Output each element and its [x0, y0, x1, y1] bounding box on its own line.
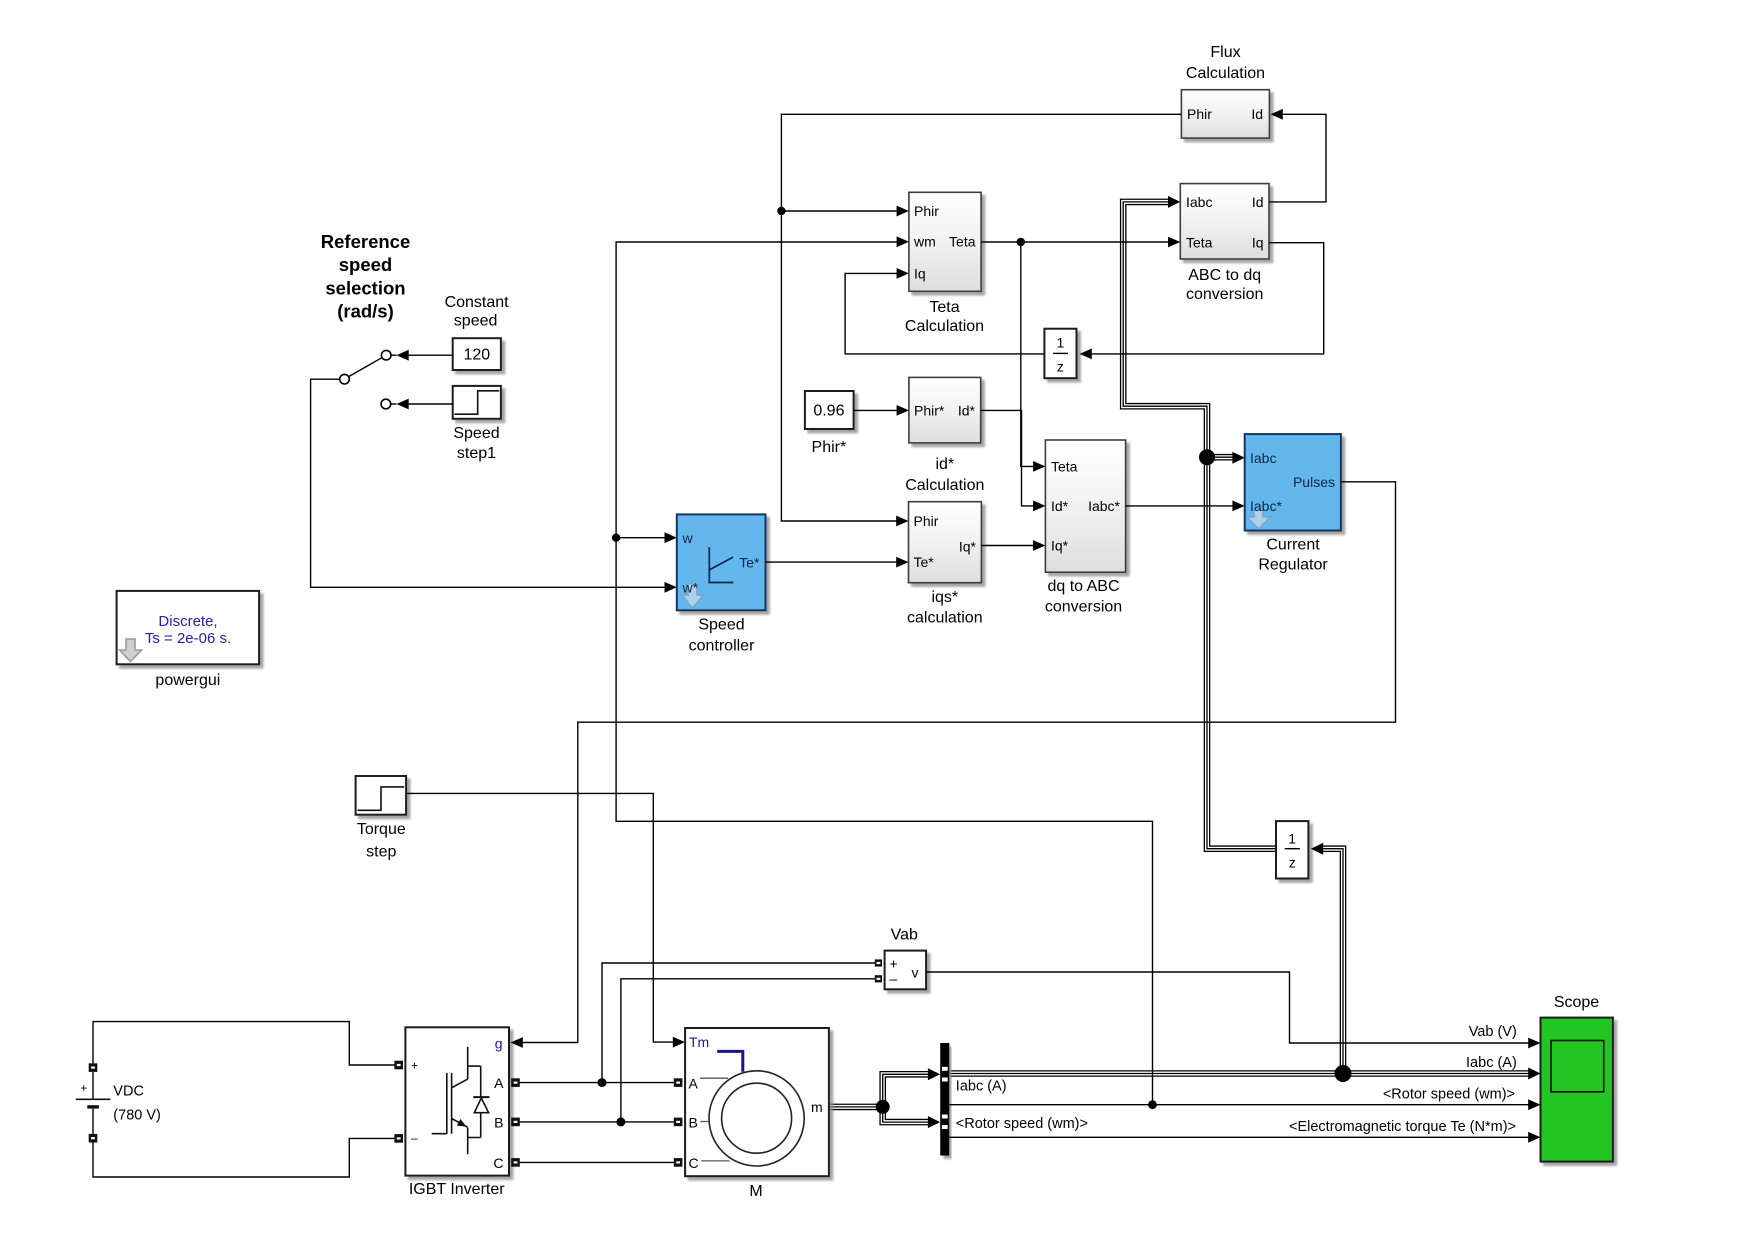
- svg-text:Id: Id: [1251, 106, 1263, 122]
- port battery -: [89, 1134, 98, 1143]
- scope block: [1541, 1018, 1613, 1162]
- svg-text:Phir: Phir: [914, 203, 939, 219]
- mask arrow Current Regulator: [1247, 510, 1270, 529]
- unit delay 1/z (Iq): [1044, 329, 1076, 379]
- wire unit delay out to Teta Calculation Iq: [845, 273, 1044, 354]
- svg-text:controller: controller: [689, 638, 755, 655]
- wire battery stub bottom: [92, 1109, 94, 1134]
- svg-text:dq to ABC: dq to ABC: [1047, 578, 1119, 595]
- svg-text:Speed: Speed: [453, 425, 499, 442]
- wire bus Iabc to scope: [949, 1073, 1530, 1075]
- wire switch stub upper: [391, 354, 396, 356]
- wire VDC- to inverter: [93, 1138, 395, 1177]
- subsystem dq to ABC conversion: [1045, 440, 1125, 572]
- wire Iabc* to Current Regulator: [1126, 505, 1233, 507]
- wire Iq to unit delay: [1091, 243, 1324, 354]
- arrow into motor Tm: [673, 1037, 685, 1048]
- svg-text:Teta: Teta: [1186, 235, 1213, 251]
- svg-text:Iabc (A): Iabc (A): [956, 1079, 1007, 1095]
- svg-text:id*: id*: [935, 456, 954, 473]
- arrow into Teta Calculation wm: [897, 236, 909, 247]
- svg-text:Calculation: Calculation: [905, 477, 984, 494]
- svg-text:Regulator: Regulator: [1258, 557, 1328, 574]
- arrow into Current Regulator Iabc: [1232, 452, 1244, 464]
- svg-text:1: 1: [1288, 831, 1296, 847]
- svg-text:wm: wm: [913, 234, 936, 250]
- arrow into ABC-to-dq Teta: [1168, 237, 1180, 248]
- svg-text:Current: Current: [1266, 537, 1320, 554]
- svg-text:Pulses: Pulses: [1293, 474, 1335, 490]
- arrow into scope torque: [1528, 1132, 1540, 1143]
- wire Iq* to dq-to-ABC: [981, 545, 1034, 547]
- arrow into dq-to-ABC Teta: [1033, 461, 1045, 472]
- svg-text:Iq: Iq: [1252, 235, 1264, 251]
- svg-text:iqs*: iqs*: [931, 589, 958, 606]
- wire bus to busselector in1: [883, 1074, 930, 1107]
- svg-text:M: M: [749, 1183, 762, 1200]
- wire bus to busselector in2: [883, 1107, 930, 1122]
- wire bus Iabc to 1/z: [1322, 849, 1343, 1074]
- node Iabc bus junction: [1335, 1065, 1352, 1082]
- step Speed step1: [453, 386, 501, 419]
- svg-text:C: C: [493, 1155, 503, 1171]
- motor Tm blue elbow: [717, 1051, 743, 1071]
- wire bus m-out: [829, 1105, 883, 1109]
- subsystem id* Calculation: [909, 377, 981, 443]
- svg-text:Phir*: Phir*: [914, 403, 945, 419]
- mask arrow powergui: [120, 639, 142, 662]
- manual switch circles: [381, 350, 391, 360]
- svg-text:Te*: Te*: [739, 555, 760, 571]
- wire 120 to switch: [408, 354, 452, 356]
- step icon Torque step: [358, 787, 405, 810]
- svg-text:step: step: [366, 844, 396, 861]
- node Iabc regulator junction: [1199, 449, 1215, 465]
- svg-text:Vab: Vab: [891, 927, 918, 944]
- svg-text:Ts = 2e-06 s.: Ts = 2e-06 s.: [145, 630, 231, 647]
- asynchronous machine M: [685, 1028, 829, 1176]
- svg-text:Iq*: Iq*: [959, 539, 977, 555]
- svg-text:v: v: [912, 965, 919, 981]
- svg-text:Phir*: Phir*: [812, 439, 847, 456]
- IGBT transistor icon: [432, 1073, 452, 1134]
- svg-text:0.96: 0.96: [813, 403, 844, 420]
- svg-text:IGBT Inverter: IGBT Inverter: [409, 1181, 505, 1198]
- mask arrow Speed controller: [682, 584, 704, 608]
- IGBT diode: [473, 1096, 489, 1098]
- wire bus to busselector in1: [883, 1074, 930, 1107]
- svg-text:Reference: Reference: [321, 231, 410, 252]
- svg-text:powergui: powergui: [155, 672, 220, 689]
- port IGBT C: [511, 1158, 520, 1167]
- wire bus 1/z out feedback: [1123, 202, 1276, 849]
- arrow into iqs* Te*: [896, 557, 908, 568]
- svg-text:Speed: Speed: [698, 617, 744, 634]
- svg-text:Calculation: Calculation: [1186, 65, 1265, 82]
- wire bus Iabc to 1/z: [1322, 849, 1343, 1074]
- wire bus Iabc to scope: [949, 1070, 1530, 1077]
- arrow into scope Iabc: [1528, 1068, 1540, 1080]
- subsystem Teta Calculation: [909, 192, 981, 291]
- svg-text:Constant: Constant: [445, 294, 510, 311]
- svg-text:(780 V): (780 V): [113, 1108, 161, 1124]
- svg-text:speed: speed: [339, 254, 392, 275]
- step Torque step: [356, 776, 407, 815]
- unit delay 1/z (Iabc): [1276, 821, 1308, 878]
- svg-text:speed: speed: [454, 313, 498, 330]
- wire bus Iabc to scope: [949, 1072, 1530, 1076]
- svg-text:1: 1: [1057, 335, 1065, 351]
- svg-text:<Rotor speed (wm)>: <Rotor speed (wm)>: [1383, 1087, 1515, 1103]
- arrow into scope Vab: [1528, 1038, 1540, 1049]
- step icon Speed step1: [454, 391, 499, 414]
- svg-text:Iabc*: Iabc*: [1088, 498, 1120, 514]
- wire bus branch to current regulator: [1207, 455, 1234, 459]
- wire bus to busselector in1: [883, 1074, 930, 1107]
- arrow into Speed controller w: [665, 532, 677, 543]
- wire bus branch to current regulator: [1207, 456, 1234, 458]
- port battery +: [89, 1063, 98, 1072]
- wire Te* to iqs* calculation: [766, 561, 898, 563]
- svg-text:Teta: Teta: [949, 234, 976, 250]
- svg-text:z: z: [1057, 359, 1064, 375]
- port Vab +: [875, 959, 882, 966]
- svg-text:Torque: Torque: [357, 821, 406, 838]
- subsystem iqs* calculation: [909, 502, 982, 583]
- wire bus 1/z out feedback: [1123, 202, 1276, 849]
- bus selector: [940, 1043, 949, 1156]
- svg-text:A: A: [689, 1076, 699, 1092]
- motor stator circles: [709, 1071, 804, 1166]
- wire bus branch to current regulator: [1207, 454, 1234, 461]
- port motor B: [674, 1118, 683, 1127]
- arrow into ABC-to-dq Iabc: [1168, 196, 1180, 208]
- svg-text:Scope: Scope: [1554, 994, 1599, 1011]
- subsystem Flux Calculation: [1181, 90, 1269, 138]
- svg-text:Discrete,: Discrete,: [158, 613, 217, 630]
- svg-text:Tm: Tm: [689, 1034, 709, 1050]
- node machine bus junction: [876, 1100, 890, 1114]
- arrow into bus selector in1: [928, 1068, 940, 1080]
- arrow into Teta Calculation Iq: [897, 268, 909, 279]
- wire switch stub lower: [391, 403, 397, 405]
- svg-text:Vab (V): Vab (V): [1469, 1024, 1517, 1040]
- wire Phir branch to Teta Calculation: [781, 210, 897, 212]
- bus selector port notches: [942, 1067, 948, 1071]
- svg-text:Iq*: Iq*: [1051, 538, 1069, 554]
- svg-text:ABC to dq: ABC to dq: [1188, 267, 1261, 284]
- arrow into Current Regulator Iabc*: [1232, 501, 1244, 512]
- svg-text:Flux: Flux: [1210, 44, 1240, 61]
- arrow into Teta Calculation Phir: [897, 206, 909, 217]
- wire bus Iabc to 1/z: [1322, 849, 1343, 1074]
- arrow into unit delay 2: [1311, 843, 1323, 855]
- wire Pulses to IGBT g: [522, 482, 1396, 1043]
- arrow into dq-to-ABC Iq*: [1033, 540, 1045, 551]
- port motor A: [674, 1078, 683, 1087]
- svg-text:Teta: Teta: [1051, 459, 1078, 475]
- svg-text:w: w: [682, 530, 694, 546]
- wire phase A to Vab+: [602, 963, 875, 1083]
- constant Phir* 0.96: [805, 391, 854, 429]
- svg-text:+: +: [411, 1059, 418, 1073]
- node phase A junction: [598, 1078, 607, 1087]
- port Vab -: [875, 975, 882, 982]
- arrow into Speed controller w*: [665, 582, 677, 593]
- wire VDC+ to inverter: [93, 1022, 395, 1065]
- wire torque Te to scope: [949, 1136, 1530, 1138]
- node phase B junction: [616, 1117, 625, 1126]
- svg-text:B: B: [494, 1115, 503, 1131]
- svg-text:+: +: [80, 1083, 87, 1095]
- wire phase B to Vab-: [621, 979, 875, 1122]
- wire Speed step1 to switch: [408, 403, 452, 405]
- svg-text:Calculation: Calculation: [905, 318, 984, 335]
- svg-text:Phir: Phir: [1187, 106, 1212, 122]
- speed controller graph icon: [709, 547, 733, 583]
- svg-text:conversion: conversion: [1186, 286, 1263, 303]
- wire switch arm: [349, 358, 382, 377]
- wire phase A: [518, 1082, 674, 1084]
- wire wm net: [616, 242, 1152, 1105]
- svg-text:Iq: Iq: [914, 266, 926, 282]
- svg-text:A: A: [494, 1075, 504, 1091]
- wire Teta net: [981, 241, 1169, 243]
- svg-text:m: m: [811, 1099, 823, 1115]
- subsystem Current Regulator: [1245, 434, 1341, 530]
- svg-text:Id*: Id*: [958, 403, 976, 419]
- arrow into bus selector in2: [928, 1116, 940, 1128]
- arrow into switch lower: [396, 399, 408, 410]
- node Phir junction: [777, 207, 785, 215]
- svg-text:Te*: Te*: [914, 554, 935, 570]
- wire battery stub top: [92, 1072, 94, 1099]
- arrow into id* Phir*: [897, 405, 909, 416]
- svg-text:Iabc: Iabc: [1186, 194, 1212, 210]
- wire bus 1/z out feedback: [1123, 202, 1276, 849]
- powergui block: [117, 591, 260, 664]
- constant 120 (Constant speed): [453, 338, 501, 370]
- wire Id feedback to Flux Calculation: [1269, 114, 1326, 202]
- svg-text:Id: Id: [1252, 194, 1264, 210]
- subsystem Speed controller: [677, 514, 766, 610]
- wire Phir net (Flux Calc out): [781, 114, 1181, 521]
- wire bus m-out: [829, 1106, 883, 1108]
- wire 0.96 to id* Calculation: [854, 409, 897, 411]
- wire bus m-out: [829, 1104, 883, 1111]
- svg-text:B: B: [689, 1115, 698, 1131]
- svg-text:z: z: [1289, 855, 1296, 871]
- IGBT emitter arrow: [452, 1119, 468, 1128]
- arrow into IGBT g: [511, 1037, 523, 1048]
- wire switch to w*: [311, 379, 665, 587]
- node rotor speed junction: [1148, 1100, 1157, 1109]
- arrow into scope rotor speed: [1528, 1099, 1540, 1110]
- arrow into unit delay 1: [1080, 349, 1092, 360]
- svg-text:calculation: calculation: [907, 610, 983, 627]
- wire Id* to dq-to-ABC: [981, 410, 1034, 506]
- svg-text:Iabc*: Iabc*: [1250, 498, 1282, 514]
- port motor C: [674, 1158, 683, 1167]
- wire phase B: [518, 1121, 674, 1123]
- arrow into dq-to-ABC Id*: [1033, 501, 1045, 512]
- wire rotor speed to scope: [949, 1104, 1530, 1106]
- motor port stubs: [700, 1078, 730, 1161]
- arrow into Flux Calculation Id: [1271, 109, 1283, 120]
- svg-text:<Electromagnetic torque Te (N*: <Electromagnetic torque Te (N*m)>: [1289, 1119, 1516, 1135]
- arrow into iqs* Phir: [896, 516, 908, 527]
- svg-text:Phir: Phir: [914, 513, 939, 529]
- svg-text:Iabc: Iabc: [1250, 450, 1276, 466]
- wire phase C: [518, 1161, 674, 1163]
- svg-text:g: g: [495, 1036, 503, 1052]
- voltage measurement Vab: [885, 951, 927, 990]
- scope screen: [1551, 1041, 1604, 1092]
- svg-text:–: –: [411, 1131, 418, 1145]
- arrow into switch upper: [396, 350, 408, 361]
- svg-text:Iabc (A): Iabc (A): [1466, 1055, 1517, 1071]
- battery symbol VDC: [76, 1098, 111, 1100]
- svg-text:120: 120: [463, 347, 490, 364]
- wire bus to busselector in2: [883, 1107, 930, 1122]
- svg-text:–: –: [890, 971, 898, 987]
- svg-text:C: C: [689, 1155, 699, 1171]
- IGBT Inverter block: [405, 1027, 509, 1175]
- svg-text:(rad/s): (rad/s): [337, 301, 394, 322]
- wire Teta branch to dq-to-ABC: [1021, 242, 1034, 466]
- node wm junction: [612, 534, 620, 542]
- svg-text:w*: w*: [682, 580, 699, 596]
- wire Vab to scope: [926, 972, 1530, 1043]
- svg-text:<Rotor speed (wm)>: <Rotor speed (wm)>: [956, 1116, 1088, 1132]
- node Teta junction: [1017, 238, 1025, 246]
- subsystem ABC to dq conversion: [1180, 184, 1269, 259]
- wire bus to busselector in2: [883, 1107, 930, 1122]
- svg-text:+: +: [890, 956, 898, 972]
- port IGBT +: [394, 1061, 403, 1070]
- svg-text:Id*: Id*: [1051, 498, 1069, 514]
- svg-text:selection: selection: [325, 278, 405, 299]
- wire Torque step to Tm: [406, 793, 674, 1042]
- port IGBT B: [511, 1118, 520, 1127]
- svg-text:conversion: conversion: [1045, 599, 1122, 616]
- port IGBT -: [394, 1134, 403, 1143]
- svg-text:Teta: Teta: [929, 299, 959, 316]
- wire wm branch to Speed controller: [616, 537, 665, 539]
- svg-text:VDC: VDC: [113, 1084, 144, 1100]
- svg-text:step1: step1: [457, 445, 496, 462]
- port IGBT A: [511, 1078, 520, 1087]
